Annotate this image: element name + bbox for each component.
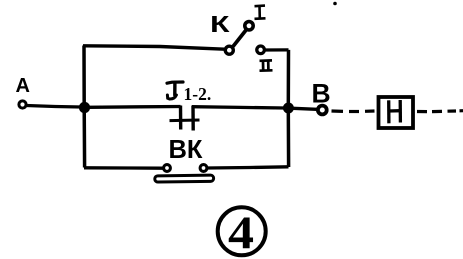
svg-text:А: А [16, 75, 30, 97]
switch K pivot [225, 46, 233, 54]
pushbutton BK contact right [200, 165, 207, 172]
wire A to left junction [27, 106, 82, 108]
capacitor contact J1-2 [170, 106, 200, 131]
dashed wire H to edge [417, 109, 463, 113]
load H box [379, 97, 414, 128]
switch contact II [257, 46, 265, 54]
svg-text:ВК: ВК [169, 136, 203, 164]
junction right [283, 103, 294, 114]
terminal B [318, 106, 327, 115]
svg-text:1-2.: 1-2. [184, 84, 212, 104]
label J1-2 [167, 82, 211, 104]
wire junction to terminal B [293, 108, 317, 109]
pushbutton BK contact left [164, 165, 171, 172]
wire middle branch left [88, 105, 181, 109]
svg-text:В: В [312, 79, 331, 109]
terminal A [19, 101, 26, 108]
label I [255, 6, 266, 19]
svg-text:4: 4 [228, 207, 254, 259]
junction left [79, 102, 90, 113]
wire top branch [83, 46, 225, 49]
label II [260, 60, 273, 70]
wire left vertical [82, 46, 86, 168]
switch K lever [233, 30, 246, 47]
pushbutton BK bar [155, 175, 214, 182]
figure number 4 [218, 207, 266, 259]
load H letter [389, 100, 401, 123]
switch contact I [245, 22, 253, 30]
wire bottom branch left [84, 166, 163, 170]
svg-text:К: К [210, 11, 231, 37]
wire bottom branch right [207, 167, 289, 168]
wire middle branch right [192, 107, 285, 108]
wire contact II to right vertical [265, 48, 289, 51]
dashed wire B to H [332, 109, 375, 113]
wire right vertical [287, 50, 291, 167]
